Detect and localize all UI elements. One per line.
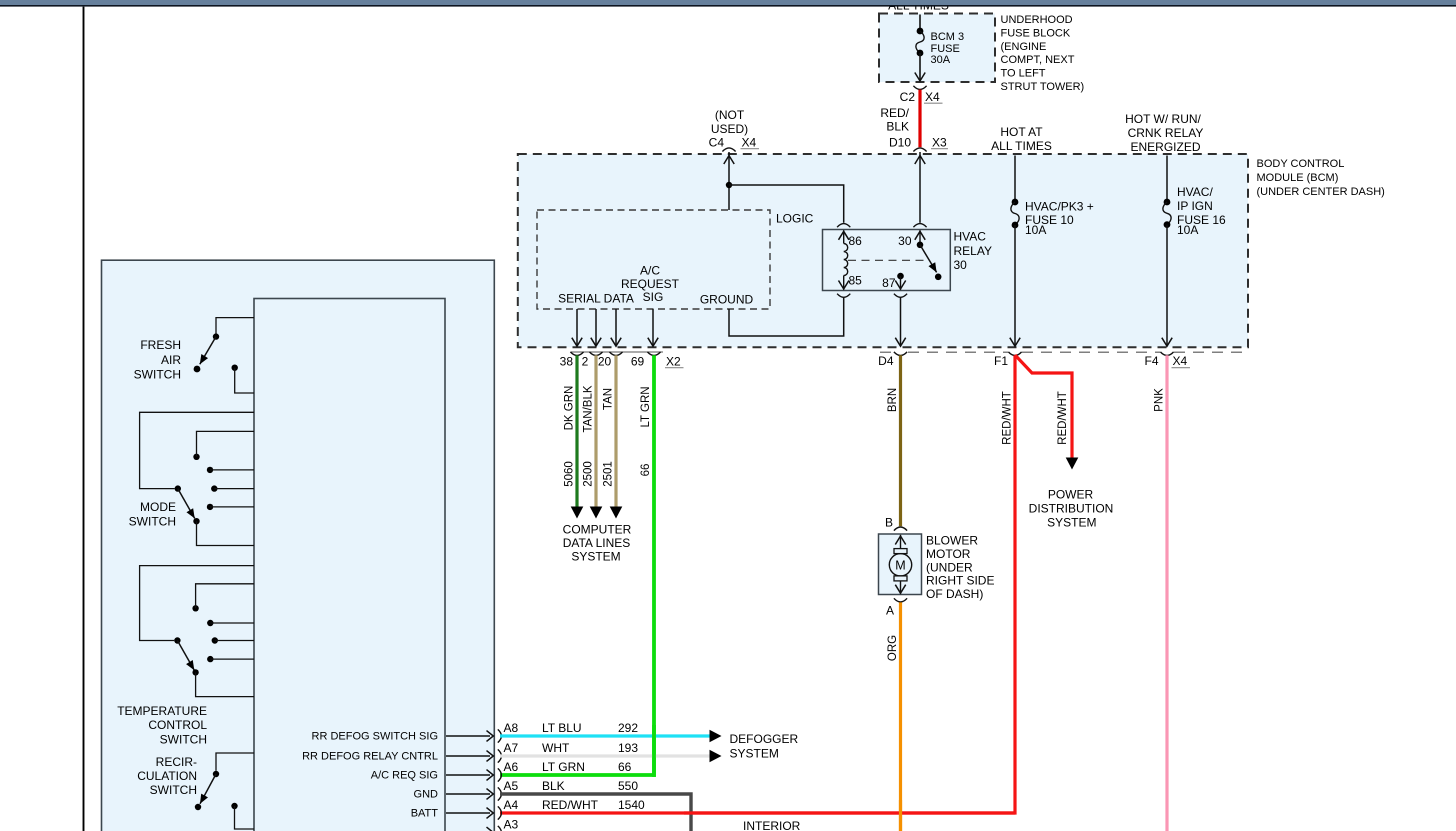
- svg-text:F4: F4: [1144, 354, 1158, 368]
- relay connector cups: [837, 224, 850, 228]
- pin A6 row: [446, 774, 490, 776]
- svg-text:HOT AT: HOT AT: [1000, 125, 1043, 139]
- svg-text:HVAC: HVAC: [954, 230, 987, 244]
- svg-text:ORG: ORG: [887, 635, 899, 661]
- svg-text:X2: X2: [666, 355, 681, 369]
- svg-text:GND: GND: [414, 789, 439, 801]
- BCM module box (dashed): [518, 154, 1248, 347]
- wire DK GRN 5060 pin 38: [575, 355, 578, 507]
- svg-text:IP IGN: IP IGN: [1177, 199, 1213, 213]
- svg-text:F1: F1: [994, 354, 1008, 368]
- svg-text:D4: D4: [878, 354, 894, 368]
- svg-text:2501: 2501: [602, 461, 614, 487]
- svg-text:(UNDER CENTER DASH): (UNDER CENTER DASH): [1257, 186, 1385, 198]
- svg-text:10A: 10A: [1025, 223, 1046, 237]
- relay coil pin 86: [843, 230, 845, 243]
- pin A7 row: [446, 755, 490, 757]
- svg-text:RED/WHT: RED/WHT: [1057, 391, 1069, 445]
- svg-text:30: 30: [954, 258, 968, 272]
- wire D10 to relay 30: [919, 152, 921, 223]
- wire LT BLU 292 to defogger: [500, 734, 710, 737]
- svg-text:CULATION: CULATION: [137, 769, 197, 783]
- svg-text:SWITCH: SWITCH: [134, 368, 181, 382]
- wire ORG blower A down: [899, 602, 902, 831]
- svg-text:TO LEFT: TO LEFT: [1001, 68, 1046, 80]
- wire ORG overlay over RED/WHT: [899, 800, 902, 831]
- svg-text:85: 85: [849, 274, 863, 288]
- svg-text:RED/WHT: RED/WHT: [1001, 391, 1013, 445]
- svg-text:FRESH: FRESH: [140, 338, 181, 352]
- svg-text:RELAY: RELAY: [954, 244, 992, 258]
- svg-text:USED): USED): [711, 122, 748, 136]
- svg-text:BODY CONTROL: BODY CONTROL: [1257, 158, 1345, 170]
- svg-text:30: 30: [898, 234, 912, 248]
- svg-text:MOTOR: MOTOR: [926, 547, 971, 561]
- svg-text:20: 20: [598, 355, 612, 369]
- svg-text:2: 2: [582, 355, 589, 369]
- svg-text:A: A: [886, 604, 894, 618]
- svg-text:BLK: BLK: [886, 120, 909, 134]
- svg-text:TEMPERATURE: TEMPERATURE: [117, 704, 207, 718]
- relay coil pin 85: [843, 276, 845, 290]
- svg-text:MODE: MODE: [140, 500, 176, 514]
- junction node: [726, 182, 732, 188]
- svg-text:193: 193: [618, 741, 638, 755]
- wire fuse block feed: [919, 15, 921, 32]
- wire PNK F4 down: [1165, 355, 1168, 831]
- relay pin 30: [919, 230, 921, 245]
- svg-text:SWITCH: SWITCH: [160, 732, 207, 746]
- svg-text:A/C REQ SIG: A/C REQ SIG: [371, 770, 438, 782]
- svg-text:LT BLU: LT BLU: [542, 721, 582, 735]
- svg-text:86: 86: [849, 234, 863, 248]
- pin A4 row: [446, 812, 490, 814]
- svg-text:BLOWER: BLOWER: [926, 534, 978, 548]
- svg-text:SWITCH: SWITCH: [129, 514, 176, 528]
- svg-text:RR DEFOG SWITCH SIG: RR DEFOG SWITCH SIG: [312, 731, 439, 743]
- connector A: [894, 598, 907, 602]
- svg-text:WHT: WHT: [542, 741, 570, 755]
- svg-text:HVAC/PK3 +: HVAC/PK3 +: [1025, 200, 1094, 214]
- svg-text:BCM 3: BCM 3: [931, 31, 965, 43]
- wire crnk-relay to F4: [1166, 156, 1168, 203]
- wire RED/WHT overlay over BLK: [684, 811, 1015, 814]
- svg-text:BATT: BATT: [411, 808, 439, 820]
- svg-text:30A: 30A: [931, 54, 951, 66]
- svg-text:X4: X4: [1173, 354, 1188, 368]
- mode switch: [140, 412, 254, 488]
- fresh air switch: [216, 318, 254, 334]
- svg-text:UNDERHOOD: UNDERHOOD: [1001, 14, 1073, 26]
- X2 connector face line: [571, 351, 663, 353]
- svg-text:OF DASH): OF DASH): [926, 587, 983, 601]
- svg-text:A5: A5: [504, 779, 519, 793]
- svg-text:SWITCH: SWITCH: [150, 783, 197, 797]
- svg-text:SYSTEM: SYSTEM: [571, 549, 620, 563]
- HVAC relay box: [823, 230, 951, 291]
- wire LT GRN overlay at row crossings: [652, 725, 656, 777]
- svg-text:AIR: AIR: [161, 353, 181, 367]
- wire relay 87 to D4: [900, 297, 902, 345]
- relay mechanical link: [848, 259, 926, 261]
- svg-text:FUSE: FUSE: [931, 43, 960, 55]
- svg-text:LOGIC: LOGIC: [776, 212, 814, 226]
- svg-text:INTERIOR: INTERIOR: [743, 819, 801, 831]
- svg-text:10A: 10A: [1177, 223, 1198, 237]
- top bar: [0, 0, 1456, 5]
- svg-text:A6: A6: [504, 760, 519, 774]
- svg-text:BRN: BRN: [887, 388, 899, 412]
- svg-text:38: 38: [560, 355, 574, 369]
- svg-text:X4: X4: [925, 90, 940, 104]
- svg-text:(UNDER: (UNDER: [926, 560, 973, 574]
- svg-text:RED/WHT: RED/WHT: [542, 798, 599, 812]
- svg-text:DISTRIBUTION: DISTRIBUTION: [1029, 502, 1114, 516]
- relay switch blade: [917, 242, 924, 249]
- svg-text:RIGHT SIDE: RIGHT SIDE: [926, 574, 994, 588]
- wire WHT 193 to defogger: [500, 754, 710, 757]
- svg-text:69: 69: [631, 355, 645, 369]
- connector cups BCM bottom: [570, 352, 583, 356]
- svg-text:LT GRN: LT GRN: [542, 760, 585, 774]
- svg-text:87: 87: [882, 276, 896, 290]
- svg-text:66: 66: [640, 464, 652, 477]
- svg-text:C2: C2: [900, 90, 916, 104]
- relay pin 87: [897, 273, 904, 280]
- svg-text:A4: A4: [504, 798, 519, 812]
- wire C4 to logic: [728, 152, 730, 210]
- fuse HVAC/IP IGN FUSE 16 10A: [1164, 199, 1171, 206]
- logic box (dashed): [537, 210, 770, 309]
- svg-text:A8: A8: [504, 721, 519, 735]
- svg-text:ALL TIMES: ALL TIMES: [991, 139, 1052, 153]
- svg-text:66: 66: [618, 760, 632, 774]
- blower motor box: [879, 534, 922, 595]
- svg-text:COMPUTER: COMPUTER: [563, 523, 632, 537]
- HVAC control head inner box: [254, 299, 445, 831]
- wire hot-at-all-times to F1: [1014, 156, 1016, 203]
- underhood fuse block box (dashed): [879, 14, 995, 83]
- svg-text:A3: A3: [504, 818, 519, 831]
- svg-text:SERIAL DATA: SERIAL DATA: [558, 292, 634, 306]
- svg-text:ENERGIZED: ENERGIZED: [1130, 140, 1200, 154]
- svg-text:CRNK RELAY: CRNK RELAY: [1128, 126, 1204, 140]
- connector C2 X4: [913, 86, 926, 90]
- svg-text:TAN/BLK: TAN/BLK: [582, 385, 594, 432]
- svg-text:MODULE (BCM): MODULE (BCM): [1257, 172, 1339, 184]
- pin A5 row: [446, 793, 490, 795]
- svg-text:BLK: BLK: [542, 779, 565, 793]
- svg-text:SIG: SIG: [643, 290, 664, 304]
- wire BLK 550 pin A5: [500, 794, 691, 831]
- svg-text:CONTROL: CONTROL: [148, 718, 207, 732]
- svg-text:5060: 5060: [563, 461, 575, 487]
- svg-text:DEFOGGER: DEFOGGER: [730, 732, 799, 746]
- wire BRN D4 to blower B: [899, 355, 902, 526]
- pin A8 row: [446, 735, 490, 737]
- svg-text:HVAC/: HVAC/: [1177, 185, 1213, 199]
- svg-text:B: B: [885, 516, 893, 530]
- wire RED/WHT F1 to A4: [500, 355, 1015, 813]
- svg-text:X3: X3: [932, 136, 947, 150]
- svg-text:SYSTEM: SYSTEM: [730, 746, 779, 760]
- recirculation switch: [216, 753, 254, 771]
- logic output wires 38 2 20 69: [576, 309, 578, 346]
- svg-text:A/C: A/C: [640, 264, 660, 278]
- svg-text:LT GRN: LT GRN: [640, 386, 652, 427]
- wire LT GRN 66 pin 69 to A6: [500, 355, 654, 775]
- wire TAN/BLK 2500 pin 2: [594, 355, 597, 507]
- svg-text:GROUND: GROUND: [700, 293, 754, 307]
- fuse HVAC/PK3 FUSE 10 10A: [1012, 199, 1019, 206]
- svg-text:DK GRN: DK GRN: [563, 386, 575, 431]
- svg-text:X4: X4: [742, 136, 757, 150]
- svg-text:A7: A7: [504, 741, 519, 755]
- wire ground to relay 85: [729, 297, 844, 336]
- wire RED/BLK C2 to D10: [918, 90, 921, 148]
- svg-text:STRUT TOWER): STRUT TOWER): [1001, 81, 1085, 93]
- svg-text:550: 550: [618, 779, 638, 793]
- svg-text:RR DEFOG RELAY CNTRL: RR DEFOG RELAY CNTRL: [302, 751, 438, 763]
- svg-text:REQUEST: REQUEST: [621, 277, 680, 291]
- blower motor symbol: [900, 535, 902, 549]
- HVAC control assembly box: [102, 260, 495, 831]
- relay coil: [844, 244, 848, 276]
- svg-text:(ENGINE: (ENGINE: [1001, 41, 1047, 53]
- svg-text:M: M: [895, 558, 905, 572]
- wire RED/WHT branch to power distribution: [1015, 355, 1072, 458]
- svg-text:COMPT, NEXT: COMPT, NEXT: [1001, 54, 1075, 66]
- svg-text:1540: 1540: [618, 798, 645, 812]
- svg-text:FUSE BLOCK: FUSE BLOCK: [1001, 27, 1071, 39]
- temperature control switch: [140, 566, 254, 641]
- wire junction to relay coil 86: [729, 185, 844, 223]
- svg-text:2500: 2500: [582, 461, 594, 487]
- svg-text:TAN: TAN: [602, 388, 614, 410]
- fuse BCM 3 30A: [917, 28, 924, 35]
- svg-text:292: 292: [618, 721, 638, 735]
- svg-text:(NOT: (NOT: [715, 108, 745, 122]
- svg-text:SYSTEM: SYSTEM: [1047, 516, 1096, 530]
- X4 connector face line: [880, 351, 894, 353]
- svg-text:POWER: POWER: [1048, 487, 1094, 501]
- svg-text:PNK: PNK: [1153, 388, 1165, 412]
- svg-text:DATA LINES: DATA LINES: [563, 536, 631, 550]
- svg-text:D10: D10: [889, 136, 911, 150]
- wire TAN 2501 pin 20: [614, 355, 617, 507]
- svg-text:C4: C4: [709, 136, 725, 150]
- svg-text:HOT W/ RUN/: HOT W/ RUN/: [1125, 112, 1201, 126]
- svg-text:RECIR-: RECIR-: [156, 755, 197, 769]
- svg-text:RED/: RED/: [880, 106, 909, 120]
